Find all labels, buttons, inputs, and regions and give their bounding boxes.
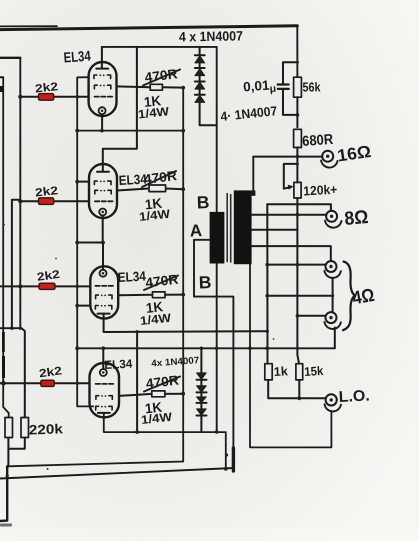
wire series link jacks [267, 278, 333, 312]
wire main vertical through 56k [296, 97, 298, 127]
label 120k [303, 182, 338, 199]
diode D3 1N4007 [195, 82, 205, 90]
svg-text:680R: 680R [302, 132, 335, 150]
resistor R2 2k2 (red) [39, 198, 54, 205]
brace 4 ohm pair [343, 262, 355, 331]
wire 220k R6 top lead [22, 328, 25, 417]
wire bottom long line to page edge [0, 468, 234, 479]
edge mark left side [0, 86, 5, 378]
label 1/4W R8 [140, 410, 173, 427]
label 8 ohm [344, 207, 370, 230]
label 1/4W R6 [138, 207, 171, 224]
label B bottom [198, 272, 211, 292]
wire input stub A top-left [0, 57, 20, 59]
wire 8 ohm tap line [252, 214, 327, 216]
label 1K R6 [144, 195, 163, 213]
resistor R12 680R [294, 129, 302, 147]
label EL34 V2 [118, 172, 147, 188]
wire secondary top tap to 16 ohm line [252, 157, 254, 192]
resistor R1 2k2 (red) [39, 94, 54, 101]
label 16 ohm [336, 142, 372, 166]
svg-text:1k: 1k [273, 364, 288, 379]
label 4 ohm [351, 284, 376, 309]
svg-text:A: A [189, 221, 202, 240]
label 0,01u capacitor [243, 77, 277, 97]
resistor R6 screen 1K tube2 with leads [117, 185, 183, 192]
wire NFB bottom to LO jack [268, 380, 326, 398]
wire grid line 2k2 R2 to tube2 [20, 200, 89, 202]
svg-text:EL34: EL34 [117, 269, 146, 285]
wire 8 ohm switched line [267, 204, 331, 211]
wire 4ohm jack2 feed [297, 315, 325, 317]
jack J4 4 ohm output lower [324, 312, 341, 329]
diode D4 1N4007 [195, 95, 205, 103]
wire screen rail + bottom return line [8, 88, 183, 467]
label 1/4W R5 [137, 104, 170, 121]
wire input stub B [0, 76, 3, 78]
wire diode string 1 vertical [200, 47, 217, 125]
tube V3 EL34 inverted [90, 266, 118, 318]
wire lower-left horizontal y=328 [0, 327, 20, 329]
label 1K R7 [145, 298, 164, 316]
diode D1 1N4007 [195, 55, 205, 63]
resistor R7 screen 1K tube3 with leads [118, 292, 183, 298]
wire grid line 2k2 R3 to tube3 [0, 285, 90, 287]
label 15k NFB [304, 364, 324, 379]
jack J1 16 ohm output [321, 151, 338, 168]
wire 120k bypass bracket with arrow [284, 164, 298, 190]
svg-text:B: B [198, 272, 211, 292]
wire grid line 2k2 R4 to tube4 [0, 382, 90, 384]
tube V4 EL34 inverted [90, 363, 120, 417]
wire 4ohm jack1 top feed [252, 246, 331, 261]
wire HT vertical through transformer x=216.7 [216, 47, 218, 432]
label EL34 V4 [104, 357, 133, 372]
diode D8 1N4007 [197, 409, 207, 416]
node top-right corner down to snubber [296, 26, 298, 77]
wire 220k bottoms join [0, 438, 25, 521]
transformer T1 core lines [227, 194, 231, 263]
svg-text:4 x 1N4007: 4 x 1N4007 [179, 28, 243, 44]
wire 4ohm jack1 feed [267, 264, 325, 266]
label 1K R8 [144, 399, 163, 417]
svg-text:L.O.: L.O. [338, 387, 370, 406]
label 1k NFB [273, 364, 288, 379]
label 2k2 R4 [38, 365, 62, 380]
tube V2 EL34 [89, 164, 117, 218]
wire jack2 sleeve drop [334, 328, 336, 349]
svg-text:15k: 15k [304, 364, 324, 379]
svg-text:EL34: EL34 [104, 357, 133, 372]
svg-text:56k: 56k [303, 80, 322, 95]
wire 16 ohm feed line [253, 156, 322, 158]
label 4x1N4007 top [179, 28, 243, 44]
label A [189, 221, 202, 240]
wire A-tap serpentine to bottom supply [194, 240, 233, 471]
diode D5 1N4007 [197, 373, 207, 380]
wire main vertical below 120k to 15k [297, 198, 299, 364]
transformer T1 secondary winding [234, 190, 256, 264]
wire anode bus tubes 1-2 (top caps to diode column) [102, 47, 217, 68]
wire anode route tube3 down to anode line [104, 314, 268, 433]
wire snubber bracket + capacitor 0,01u [278, 62, 298, 115]
label 220k [29, 421, 64, 437]
edge mark bottom-left corner [0, 524, 12, 527]
jack J2 8 ohm output [325, 211, 342, 228]
wire diode string 2 vertical [200, 348, 202, 432]
wire ground bus y=348.3 [77, 348, 334, 369]
diode D2 1N4007 [195, 68, 205, 76]
edge mark top-left corner [0, 0, 1, 1]
resistor R4 2k2 (red) [41, 380, 55, 386]
wire anode line tube4 to bottom corner [104, 413, 226, 469]
label 470R R7 crossed out [144, 272, 179, 291]
svg-text:EL34: EL34 [63, 49, 91, 67]
wire anode link tube1-tube2 [103, 47, 137, 171]
label B top [196, 192, 209, 212]
svg-text:4Ω: 4Ω [351, 284, 376, 309]
label 470R R6 crossed out [142, 168, 178, 187]
speckles [3, 224, 274, 470]
resistor R5 screen 1K tube1 with leads [117, 84, 184, 90]
wire top border B+ line [0, 26, 297, 30]
resistor R14 1k NFB [265, 364, 272, 380]
resistor R9 220k left [5, 418, 13, 438]
resistor R15 15k NFB [296, 364, 303, 380]
wire secondary mid tap line [252, 229, 298, 231]
svg-text:2k2: 2k2 [35, 81, 59, 95]
wire g1 rail left of tubes [77, 77, 93, 406]
label EL34 V1 [63, 49, 91, 67]
diode D6 1N4007 [197, 386, 207, 393]
node junction dots [1, 61, 334, 478]
tube V1 EL34 [89, 62, 117, 116]
resistor R8 screen 1K tube4 with leads [119, 391, 183, 397]
svg-text:2k2: 2k2 [35, 185, 59, 199]
label 4x1N4007 middle [220, 103, 278, 124]
wire NFB vertical x=267 [266, 204, 268, 364]
wire 680R to 16ohm node [296, 147, 298, 182]
label 680R [302, 132, 335, 150]
label 1/4W R7 [139, 311, 172, 328]
label EL34 V3 [117, 269, 146, 285]
jack J5 L.O. output [325, 394, 342, 411]
svg-text:220k: 220k [29, 421, 64, 437]
resistor R11 56k [294, 77, 302, 97]
label 2k2 R3 [36, 269, 60, 284]
transformer T1 primary winding [210, 212, 225, 264]
label L.O. [338, 387, 370, 406]
wire input rail 3 [12, 200, 20, 328]
label 2k2 R1 [35, 81, 59, 95]
svg-text:B: B [196, 192, 209, 212]
svg-text:8Ω: 8Ω [344, 207, 370, 230]
label 1K R5 [143, 92, 162, 110]
resistor R3 2k2 (red) [39, 283, 55, 289]
label 4x1N4007 small bottom [151, 355, 200, 369]
svg-text:120k+: 120k+ [303, 182, 338, 199]
label 470R R8 crossed out [144, 372, 180, 391]
wire input rail 1 [19, 58, 21, 328]
resistor R10 220k right [21, 418, 29, 438]
wire grid line 2k2 R1 to tube1 [20, 96, 88, 98]
resistor R13 120k [294, 182, 301, 198]
wire input rail 2 down to 220k [3, 77, 9, 417]
label 56k [303, 80, 322, 95]
label 2k2 R2 [35, 185, 59, 199]
diode D7 1N4007 [197, 397, 207, 403]
jack J3 4 ohm output upper [324, 261, 341, 278]
wire secondary bottom to ground bus and LO sleeve [250, 264, 331, 447]
wire cathode bus tubes1 (y=130.6) [77, 114, 183, 130]
label 470R R5 crossed out [143, 66, 180, 85]
wire cathode link tubes 2-3 [77, 216, 103, 270]
